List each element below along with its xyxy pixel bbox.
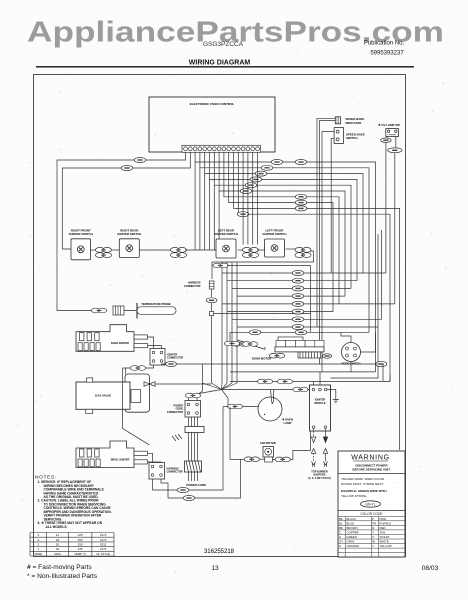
wire pair to oven lamp <box>243 406 259 408</box>
svg-text:12: 12 <box>56 533 60 537</box>
connector pair on horizontal 3 <box>257 379 272 384</box>
speed bake switch <box>334 128 343 144</box>
power cord ferrule (hatched) <box>185 461 202 472</box>
svg-text:2172: 2172 <box>100 538 107 542</box>
svg-text:5995393237: 5995393237 <box>370 50 404 56</box>
wire right vertical a <box>381 230 383 319</box>
svg-text:PR: PR <box>372 521 376 525</box>
inline connector pin3 second <box>295 160 307 165</box>
svg-text:BROIL IGNITER: BROIL IGNITER <box>111 459 130 462</box>
svg-text:COPPER: COPPER <box>347 530 359 534</box>
igniter switch right rear <box>119 239 139 258</box>
wire mid fan horizontal <box>227 280 357 282</box>
svg-text:WHITE: WHITE <box>380 540 389 544</box>
svg-text:5311: 5311 <box>100 543 107 547</box>
wire bottom run 1 to lamp feed pair <box>223 406 229 408</box>
svg-text:LEFT FRONTIGNITER SWITCH: LEFT FRONTIGNITER SWITCH <box>263 229 287 237</box>
svg-text:1: 1 <box>37 547 39 551</box>
svg-text:DOOR MOTOR: DOOR MOTOR <box>252 357 272 361</box>
igniter connector mid <box>150 349 165 366</box>
bake igniter <box>76 325 148 352</box>
oven lamp switch <box>386 129 399 137</box>
mating connector pair <box>185 393 200 398</box>
wire EOC pin14 down to LR/LF connectors <box>247 152 249 244</box>
svg-text:IGNITERMODULE: IGNITERMODULE <box>314 398 326 405</box>
connector pair at igniter module input <box>293 387 308 392</box>
fan motor <box>263 447 274 463</box>
svg-text:✳ OVENLAMP: ✳ OVENLAMP <box>282 418 293 426</box>
inline connector mid fan <box>292 325 304 330</box>
electronic oven control EOC <box>149 97 275 152</box>
svg-text:T: T <box>372 530 374 534</box>
power cord connector <box>185 401 201 418</box>
inline connector mid fan <box>292 294 304 299</box>
svg-text:GY: GY <box>339 540 343 544</box>
wire EOC pin6 branch down to igniter row <box>209 179 211 250</box>
wire oven lamp feed drop to fan motor <box>229 407 231 460</box>
gas valve <box>76 374 150 413</box>
igniter module <box>310 385 331 431</box>
wire pair into power cord connector <box>189 398 198 401</box>
wire EOC pin10 right fan <box>229 152 333 311</box>
connector pair LR-LF <box>243 248 259 258</box>
svg-text:LEFT REARIGNITER SWITCH: LEFT REARIGNITER SWITCH <box>214 229 238 237</box>
wire mid fan horizontal <box>227 311 333 313</box>
inline connector mid fan <box>292 286 304 291</box>
wire mid fan horizontal <box>237 326 378 328</box>
wire long horizontal 2 <box>230 371 376 373</box>
svg-text:P: P <box>372 517 374 521</box>
inline connector pin5 <box>255 171 267 176</box>
wire harness drop to right <box>227 266 311 333</box>
igniter switch left rear <box>216 239 236 258</box>
svg-text:BAKE IGNITER: BAKE IGNITER <box>111 342 129 345</box>
svg-text:RIGHT REARIGNITER SWITCH: RIGHT REARIGNITER SWITCH <box>117 228 141 236</box>
svg-text:WIRE: WIRE <box>35 552 43 556</box>
svg-text:GN-YL: GN-YL <box>365 503 375 507</box>
svg-text:YELLOW STRIPE.: YELLOW STRIPE. <box>341 494 367 498</box>
connector pair fan motor left <box>244 457 259 462</box>
probe body <box>124 303 176 319</box>
inline connector horizontal 1 <box>375 362 387 367</box>
connector pair RF-RR <box>96 248 112 258</box>
wire EOC pin3 branch down to igniter row <box>194 162 196 250</box>
wire <box>222 389 310 391</box>
wire door switch up <box>341 332 351 342</box>
svg-text:TAN: TAN <box>380 530 386 534</box>
connector pair fan motor right <box>275 457 290 462</box>
wire gauge table <box>30 533 114 557</box>
inline connector pin11 second <box>295 206 307 211</box>
wire broil lead 1 <box>148 453 153 462</box>
svg-text:BLUE: BLUE <box>347 521 355 525</box>
notes text block <box>38 480 112 529</box>
wire EOC pin13 down to LR/LF connectors <box>242 152 244 244</box>
wire lamp sw to connector 2 <box>395 137 397 148</box>
connector pair below door motor <box>269 353 284 358</box>
svg-text:COLOR CODE: COLOR CODE <box>360 512 383 516</box>
wire mesh bundle vertical to funnel <box>231 262 233 383</box>
inline connector bottom run 1 <box>177 488 189 493</box>
wire junction to right <box>214 313 311 315</box>
wire EOC pin8 branch down to igniter row <box>218 191 220 250</box>
svg-text:2172: 2172 <box>100 533 107 537</box>
wire LF switch right <box>286 248 297 250</box>
svg-text:Y: Y <box>372 544 374 548</box>
wire mid fan horizontal <box>232 318 382 320</box>
svg-text:2: 2 <box>37 543 39 547</box>
wire harness connector down <box>211 289 213 297</box>
svg-text:POWER CORD: POWER CORD <box>186 483 206 487</box>
connector pair door motor left <box>224 341 239 346</box>
wire connector to RR switch <box>111 249 119 251</box>
wire igniter row return to harness connector <box>212 251 314 279</box>
wire RR switch right <box>139 249 172 251</box>
connector pair RR-LR <box>171 248 187 258</box>
connector pair on horizontal 3b <box>277 379 292 384</box>
wire speed bake indicator feed 1 <box>317 118 335 327</box>
svg-text:3173: 3173 <box>100 547 107 551</box>
svg-text:BK: BK <box>339 517 343 521</box>
svg-text:FAN MOTOR: FAN MOTOR <box>260 441 276 445</box>
inline connector mid fan <box>292 317 304 322</box>
ground symbol at igniter module <box>327 390 339 403</box>
svg-text:✳ OV LAMP SW: ✳ OV LAMP SW <box>378 123 400 127</box>
svg-text:PURPLE: PURPLE <box>380 521 392 525</box>
wire junction down to funnel <box>211 316 213 383</box>
warning box <box>338 451 405 557</box>
wire EOC pin7 branch down to igniter row <box>213 185 215 250</box>
wire mid fan horizontal <box>237 295 345 297</box>
wire EOC pin9 right fan <box>224 152 339 304</box>
svg-text:13: 13 <box>211 565 219 572</box>
svg-text:GRAY: GRAY <box>347 540 355 544</box>
wire igniter connector down-left <box>123 365 154 368</box>
inline connector pin3 <box>271 160 283 165</box>
svg-text:SPEED BAKESWITCH: SPEED BAKESWITCH <box>346 132 365 140</box>
svg-text:BROWN: BROWN <box>347 526 358 530</box>
EOC terminal strip <box>182 145 261 152</box>
wire EOC pin2 to right-front igniter switch <box>62 152 190 249</box>
wire EOC pin4 branch down to igniter row <box>199 168 201 250</box>
svg-text:BR: BR <box>339 526 343 530</box>
igniter switch left front <box>265 239 285 257</box>
svg-text:TEMPERATURE PROBE: TEMPERATURE PROBE <box>141 302 171 306</box>
inline connector igniter right <box>166 362 177 367</box>
connector pair door motor <box>232 342 247 347</box>
inline connector mid fan <box>292 301 304 306</box>
wire mesh bundle vertical to funnel <box>221 262 223 383</box>
inline connector <box>381 138 391 142</box>
svg-text:IGNITERCONNECTOR: IGNITERCONNECTOR <box>167 354 183 360</box>
wire right vertical b to igniter module <box>331 234 379 378</box>
igniter switch right front <box>71 239 91 260</box>
door switch <box>342 343 361 362</box>
wire left run to probe connector <box>57 305 92 311</box>
svg-text:ALL MODELS.: ALL MODELS. <box>46 525 68 529</box>
connector pair LF out <box>295 248 311 258</box>
svg-text:R: R <box>372 526 374 530</box>
door motor assembly <box>238 337 325 352</box>
wire vertical drop to power connector pair <box>199 364 203 394</box>
svg-text:W: W <box>372 540 375 544</box>
svg-text:RED: RED <box>380 526 386 530</box>
wire EOC pin1 to temperature probe (left run) <box>57 152 186 305</box>
svg-text:125: 125 <box>78 533 83 537</box>
inline connector pin8 <box>240 189 252 194</box>
wire to fan motor left <box>230 458 244 460</box>
wire mesh bundle vertical to funnel <box>226 262 228 383</box>
junction square node <box>210 312 214 316</box>
wire speed bake indicator feed 2 <box>320 121 336 364</box>
wire EOC pin5 right fan <box>205 152 363 273</box>
svg-text:RIGHT FRONTIGNITER SWITCH: RIGHT FRONTIGNITER SWITCH <box>69 228 93 236</box>
wire lamp circuit down left <box>385 142 387 273</box>
svg-text:316255218: 316255218 <box>204 549 235 555</box>
svg-text:08/03: 08/03 <box>422 565 439 572</box>
svg-text:* = Non-Illustrated Parts: * = Non-Illustrated Parts <box>27 573 98 580</box>
svg-text:18: 18 <box>56 538 60 542</box>
wire igniter connector down-right <box>162 364 167 365</box>
inline connector pin6 <box>250 177 262 182</box>
svg-text:150: 150 <box>78 538 83 542</box>
svg-text:150: 150 <box>78 543 83 547</box>
wire bake igniter lead 1 <box>148 337 154 349</box>
svg-text:20: 20 <box>56 547 60 551</box>
wire to LR switch <box>185 249 217 251</box>
connector pair on door motor lever <box>242 342 257 347</box>
wire RF switch to connector <box>91 249 97 251</box>
inline connector pin12 <box>237 212 249 217</box>
connector pair on harness drop <box>213 263 228 268</box>
inline connector bottom run 2 <box>183 496 195 501</box>
wire EOC pin5 branch down to igniter row <box>204 174 206 250</box>
wire to junction square <box>211 303 213 312</box>
wire long horizontal 3 <box>230 375 390 382</box>
svg-text:C: C <box>339 530 341 534</box>
wire EOC pin12 right fan <box>238 152 390 381</box>
wire gas valve feed 2 <box>125 368 127 374</box>
svg-text:TOP BURNERIGNITERS(2, 3, 4 OR: TOP BURNERIGNITERS(2, 3, 4 OR 5 PLCS) <box>308 471 331 480</box>
wire door switch right <box>361 332 376 352</box>
inline connector pin7 <box>245 183 257 188</box>
wire broil lead 2 <box>148 461 162 464</box>
svg-text:3: 3 <box>37 538 39 542</box>
wire bake igniter lead 2 <box>148 346 162 349</box>
bowtie connector at gas valve <box>144 382 155 387</box>
top burner igniter channel at x=325.5 <box>323 429 327 467</box>
wire EOC pin7 right fan <box>214 152 351 288</box>
wire door switch bottom stub <box>350 362 352 372</box>
svg-text:135: 135 <box>78 547 83 551</box>
svg-text:ORANGE: ORANGE <box>347 544 360 548</box>
svg-text:ELECTRONIC OVEN CONTROL: ELECTRONIC OVEN CONTROL <box>190 102 235 106</box>
inline connector <box>388 148 402 153</box>
inline connector door loop 2b <box>295 330 307 335</box>
top burner igniter channel at x=313.6 <box>311 429 315 467</box>
junction funnel where mid bundle converges <box>199 383 237 407</box>
svg-text:HARNESSCONNECTOR: HARNESSCONNECTOR <box>184 281 201 288</box>
wire motor to right connector <box>272 458 275 460</box>
inline connector on pin1 wire <box>134 158 146 163</box>
connector pair temperature probe <box>91 308 106 313</box>
svg-text:UL STYLE: UL STYLE <box>96 552 110 556</box>
svg-text:DISCONNECT POWERBEFORE SERVICI: DISCONNECT POWERBEFORE SERVICING UNIT. <box>352 464 390 472</box>
wire speed bake switch feed 2 <box>331 138 334 273</box>
svg-text:Publication No.: Publication No. <box>364 40 405 46</box>
wire to door motor connector <box>230 332 233 342</box>
inline connector door loop 2 <box>249 330 261 335</box>
color code table <box>338 516 405 557</box>
wire EOC pin3 right fan <box>195 152 375 372</box>
svg-text:WIRING DIAGRAM: WIRING DIAGRAM <box>189 59 251 66</box>
speed bake indicator lamp <box>335 117 340 124</box>
wire igniter module pin2 up <box>319 372 321 385</box>
svg-text:20: 20 <box>56 543 60 547</box>
power cord cable <box>189 417 198 481</box>
inline connector pin10 second <box>295 200 307 205</box>
wire EOC pin4 right fan <box>200 152 369 332</box>
svg-text:TRACER WIRE: WIRE COLOR: TRACER WIRE: WIRE COLOR <box>341 477 385 481</box>
svg-text:V: V <box>372 535 374 539</box>
wire EOC pin16 down to LR/LF connectors <box>257 152 259 244</box>
wire EOC pin6 right fan <box>210 152 358 280</box>
tracer example oval GN-YL <box>361 501 381 507</box>
harness connector lower <box>149 463 165 480</box>
wire mid fan horizontal <box>222 272 386 274</box>
inline connector mid fan <box>292 271 304 276</box>
wire mesh bundle vertical to funnel <box>236 262 238 383</box>
wire EOC pin15 down to LR/LF connectors <box>252 152 254 244</box>
inline connector pin4 <box>261 165 273 170</box>
wire igniter module pin1 up <box>313 382 315 386</box>
wire funnel to pair <box>227 406 230 408</box>
wire harness lower bottom run 2 <box>161 459 241 498</box>
svg-text:NOTED FIRST, STRIPE NEXT.: NOTED FIRST, STRIPE NEXT. <box>341 482 384 486</box>
svg-text:WARNING: WARNING <box>351 454 389 461</box>
inline connector mid fan <box>292 278 304 283</box>
wire EOC pin8 right fan <box>219 152 345 296</box>
wire lamp circuit down right <box>394 153 396 304</box>
strain relief marks <box>172 434 182 441</box>
svg-text:# = Fast-moving Parts: # = Fast-moving Parts <box>27 564 92 571</box>
wire gas valve feed down to broil area <box>123 368 150 445</box>
svg-text:YELLOW: YELLOW <box>380 544 392 548</box>
wire long horizontal run 1 <box>176 364 383 381</box>
wire lamp sw to connector 1 <box>386 137 388 139</box>
probe plug (hatched) <box>113 306 124 315</box>
wire door loop horizontal <box>230 331 369 333</box>
svg-text:GSG3PZCCA: GSG3PZCCA <box>203 41 244 48</box>
inline connector mid fan <box>292 309 304 314</box>
svg-text:AWG: AWG <box>54 552 62 556</box>
door motor terminal strip (hatched) <box>298 352 322 358</box>
svg-text:4: 4 <box>37 533 39 537</box>
inline connector on pin2 wire <box>121 166 133 171</box>
inline connector <box>206 298 217 303</box>
svg-text:POWERCORDCONNECTOR: POWERCORDCONNECTOR <box>167 405 183 414</box>
svg-text:GREEN: GREEN <box>347 535 357 539</box>
tracer wire text <box>341 477 387 498</box>
inline connector pin9 second <box>295 194 307 199</box>
svg-text:GAS VALVE: GAS VALVE <box>95 394 111 398</box>
footer legend <box>27 564 98 580</box>
connector pair on oven lamp feed <box>227 404 242 409</box>
svg-text:BLACK: BLACK <box>347 517 357 521</box>
svg-text:HARNESSCONNECTOR: HARNESSCONNECTOR <box>167 468 183 474</box>
wire gas valve to harness column <box>155 383 212 385</box>
svg-text:VIOLET: VIOLET <box>380 535 391 539</box>
wire harness lower bottom run 1 <box>153 407 224 491</box>
wire LR switch to connector <box>238 249 244 251</box>
wire fan connector to motor <box>259 458 264 460</box>
broil igniter <box>76 441 148 468</box>
svg-text:SPEED BAKEINDICATOR: SPEED BAKEINDICATOR <box>346 117 365 125</box>
harness connector <box>209 281 214 289</box>
wire fan motor to igniter module <box>290 431 310 459</box>
svg-text:TEMP °C: TEMP °C <box>74 552 86 556</box>
inline connector <box>322 354 331 358</box>
svg-text:EXAMPLE: GREEN WIRE WITH: EXAMPLE: GREEN WIRE WITH <box>341 489 387 493</box>
wire speed bake switch feed 1 <box>322 132 334 372</box>
power cord strain relief <box>185 427 204 433</box>
oven lamp <box>258 390 282 422</box>
svg-text:PINK: PINK <box>380 517 387 521</box>
wire mid fan horizontal <box>222 303 395 305</box>
wire mid fan horizontal <box>232 287 351 289</box>
connector pair below igniter connector <box>130 366 145 371</box>
svg-text:BL: BL <box>339 521 343 525</box>
diagram outer border (decorative frame) <box>34 75 406 557</box>
wire EOC pin11 right fan <box>234 152 400 450</box>
EOC terminal pins 1-16 <box>184 147 260 151</box>
wire to LF switch <box>257 249 265 251</box>
